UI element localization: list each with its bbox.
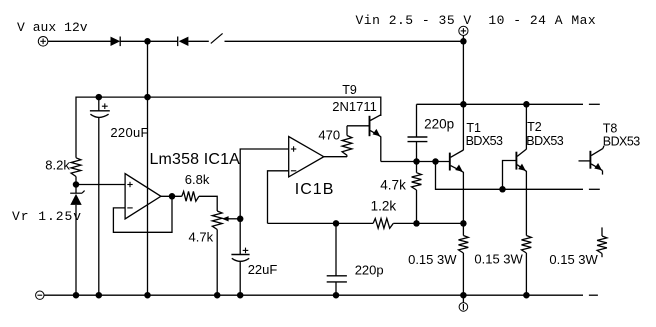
- resistor 1.2k: [373, 219, 393, 229]
- wire: [381, 161, 450, 163]
- svg-text:BDX53: BDX53: [603, 135, 640, 149]
- svg-text:T9: T9: [342, 83, 357, 97]
- transistor T2 BDX53: [515, 152, 517, 170]
- capacitor 220p (output): [335, 223, 337, 275]
- wire: [240, 149, 289, 255]
- junction: [144, 38, 151, 45]
- svg-text:V aux 12v: V aux 12v: [17, 20, 88, 35]
- capacitor 22uF: [231, 254, 249, 256]
- wire: [393, 222, 463, 224]
- junction: [144, 94, 151, 101]
- junction: [523, 292, 530, 299]
- wire: [324, 156, 347, 158]
- junction: [333, 292, 340, 299]
- svg-text:2N1711: 2N1711: [332, 99, 377, 114]
- transistor T9 2N1711: [369, 116, 371, 136]
- wire: [188, 40, 208, 42]
- terminal Vin (+): [459, 26, 468, 35]
- potentiometer 4.7k: [212, 211, 222, 230]
- junction: [73, 292, 80, 299]
- wire: [147, 41, 149, 295]
- svg-text:6.8k: 6.8k: [185, 172, 210, 187]
- wire rail continuation dash: [589, 294, 598, 296]
- svg-text:BDX53: BDX53: [466, 134, 503, 148]
- op-amp IC1A: [125, 174, 161, 219]
- resistor 4.7k: [412, 173, 422, 190]
- resistor 0.15 3W (T8): [601, 227, 603, 236]
- capacitor 220uF: [98, 97, 100, 111]
- wire: [462, 35, 464, 104]
- terminal output node: [462, 295, 464, 303]
- svg-text:220p: 220p: [355, 262, 384, 277]
- junction node Vr: [73, 181, 80, 188]
- junction: [333, 220, 340, 227]
- junction: [96, 94, 103, 101]
- svg-text:0.15 3W: 0.15 3W: [408, 252, 457, 267]
- diode D1: [111, 37, 121, 46]
- wire: [503, 161, 517, 190]
- transistor T1 BDX53: [449, 153, 451, 171]
- transistor T8 BDX53: [579, 160, 591, 162]
- wire rail continuation dash: [589, 188, 600, 190]
- svg-text:0.15 3W: 0.15 3W: [549, 252, 598, 267]
- svg-text:470: 470: [318, 128, 340, 143]
- wire feedback IC1A: [113, 196, 172, 232]
- resistor 0.15 3W (T1): [459, 236, 469, 254]
- wire: [268, 222, 374, 224]
- svg-text:220uF: 220uF: [110, 125, 148, 140]
- wire: [225, 40, 464, 42]
- svg-text:Vin 2.5 - 35 V 10 - 24 A Max: Vin 2.5 - 35 V 10 - 24 A Max: [356, 13, 597, 28]
- capacitor 220p (compensation): [416, 104, 418, 137]
- junction: [460, 220, 467, 227]
- wire: [199, 196, 217, 211]
- wire: [48, 40, 111, 42]
- wire: [161, 195, 182, 197]
- terminal V aux (+) input: [38, 37, 48, 47]
- svg-text:4.7k: 4.7k: [189, 229, 214, 244]
- svg-text:1.2k: 1.2k: [371, 198, 397, 213]
- wire: [268, 171, 289, 224]
- zener diode: [70, 192, 82, 194]
- op-amp IC1B: [289, 137, 324, 177]
- svg-text:T8: T8: [603, 121, 618, 135]
- junction: [460, 292, 467, 299]
- junction: [499, 186, 506, 193]
- svg-text:22uF: 22uF: [248, 262, 278, 277]
- diode D2: [177, 37, 179, 47]
- svg-text:Vr 1.25v: Vr 1.25v: [12, 209, 82, 224]
- svg-text:T1: T1: [466, 121, 481, 135]
- wire base rail: [436, 162, 584, 190]
- svg-text:IC1B: IC1B: [295, 181, 335, 198]
- svg-text:220p: 220p: [424, 117, 454, 132]
- wire rail continuation dash: [589, 103, 600, 105]
- junction: [523, 101, 530, 108]
- terminal 0V (-): [36, 291, 44, 299]
- junction: [413, 158, 420, 165]
- svg-text:4.7k: 4.7k: [380, 177, 406, 192]
- junction: [144, 292, 151, 299]
- junction: [432, 158, 439, 165]
- wire: [216, 230, 218, 296]
- wire: [75, 177, 77, 194]
- svg-text:T2: T2: [527, 120, 542, 134]
- wire: [120, 40, 178, 42]
- switch S1: [211, 33, 223, 43]
- wire bottom rail (0V): [44, 294, 583, 296]
- resistor 6.8k: [182, 191, 199, 201]
- junction: [237, 292, 244, 299]
- junction: [460, 101, 467, 108]
- svg-text:Lm358 IC1A: Lm358 IC1A: [150, 151, 241, 168]
- wire: [347, 125, 370, 127]
- junction: [413, 220, 420, 227]
- junction: [169, 193, 176, 200]
- wire collector rail: [417, 103, 584, 105]
- resistor 0.15 3W (T2): [522, 236, 532, 254]
- junction: [237, 216, 244, 223]
- resistor 8.2k: [71, 158, 81, 177]
- resistor 470: [342, 136, 352, 156]
- junction: [214, 292, 221, 299]
- svg-text:8.2k: 8.2k: [45, 158, 70, 173]
- junction: [96, 292, 103, 299]
- wire: [76, 184, 125, 186]
- svg-text:BDX53: BDX53: [526, 134, 563, 148]
- svg-text:0.15 3W: 0.15 3W: [474, 252, 523, 267]
- wire V aux rail: [76, 97, 381, 158]
- junction: [460, 38, 467, 45]
